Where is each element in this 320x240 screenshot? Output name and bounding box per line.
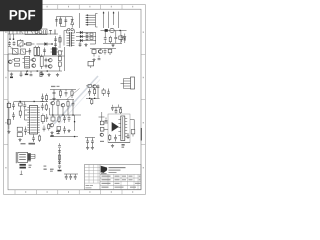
resistor R10: [15, 64, 20, 67]
diode D1: [37, 42, 53, 45]
capacitor C29: [24, 127, 27, 136]
wire sec bus2: [76, 36, 96, 38]
text note2: [50, 169, 54, 172]
label CN1 text: [20, 164, 32, 169]
resistor R1: [24, 43, 35, 46]
diode D7: [58, 161, 60, 164]
zener D6: [124, 34, 126, 44]
ground G16: [40, 71, 43, 75]
wire vsep: [79, 13, 81, 28]
resistor R32: [120, 107, 122, 114]
wire triple bus: [64, 173, 78, 175]
capacitor C3: [55, 17, 58, 27]
capacitor C12: [43, 48, 46, 56]
wire amp top: [50, 99, 75, 101]
text amp2 label: [100, 141, 104, 142]
resistor R23: [19, 109, 21, 118]
resistor R36: [131, 130, 135, 137]
diode D2: [71, 17, 74, 28]
transformer T1: [67, 28, 75, 46]
transistor Q9: [61, 103, 65, 107]
resistor R6: [109, 36, 111, 44]
capacitor C7: [86, 36, 89, 41]
capacitor C46: [58, 143, 61, 147]
capacitor C11: [29, 48, 32, 55]
capacitor C30: [32, 135, 35, 143]
capacitor C15: [30, 71, 33, 76]
resistor R20: [45, 94, 47, 103]
capacitor C13: [45, 58, 48, 69]
resistor R4: [90, 33, 93, 35]
capacitor C10: [114, 31, 117, 44]
wire amp2 vtop: [112, 105, 122, 108]
capacitor C43: [68, 115, 71, 122]
node dots: [27, 70, 48, 71]
ground G13: [92, 58, 95, 61]
capacitor C34: [91, 138, 94, 147]
resistor R26: [17, 127, 22, 131]
resistor R3: [59, 35, 61, 46]
wire sec bus3: [76, 40, 96, 42]
fuse F1: [10, 30, 18, 35]
wire ctl bus: [8, 70, 62, 72]
varistor RV1: [49, 30, 55, 35]
resistor R37: [58, 155, 60, 159]
transistor Q10: [50, 123, 54, 127]
label pwr text: [52, 47, 56, 49]
wire drop 2: [13, 34, 14, 40]
capacitor C26: [12, 112, 15, 120]
IC U4: [27, 106, 39, 135]
capacitor C23: [41, 94, 44, 103]
logo mark: [101, 166, 107, 174]
resistor R41: [57, 127, 61, 134]
resistor R33: [100, 121, 108, 125]
resistor R42: [91, 98, 93, 105]
capacitor C38: [127, 133, 130, 139]
wire reg bus: [90, 48, 116, 50]
relay K1: [11, 48, 19, 54]
diode D3: [80, 31, 82, 34]
resistor R43: [122, 144, 125, 148]
transistor Q4: [49, 58, 53, 62]
resistor R30: [67, 100, 69, 116]
wire sec join: [90, 33, 96, 45]
capacitor C8: [79, 42, 82, 47]
ground G15: [25, 71, 28, 75]
wire ctl top: [8, 54, 20, 71]
capacitor C37: [114, 135, 117, 142]
connector J1 pins: [86, 14, 98, 28]
ground G4: [47, 73, 50, 76]
ground G6: [52, 97, 55, 100]
wire amp2 right: [130, 120, 134, 130]
resistor R5: [90, 37, 93, 39]
capacitor C1: [8, 41, 11, 46]
wire sec2 top: [14, 101, 44, 102]
connector CN2: [121, 77, 135, 89]
wire primary top: [57, 17, 73, 27]
text net label: [21, 143, 36, 145]
resistor R31: [51, 115, 55, 123]
wire amp2 frame: [108, 114, 130, 143]
wire clus v: [41, 101, 49, 103]
diode D5: [80, 39, 82, 42]
transistor Q11: [100, 133, 103, 136]
node N1: [51, 43, 52, 44]
resistor R2: [59, 17, 61, 27]
wire u4 left: [25, 110, 28, 120]
ground G9: [86, 146, 89, 149]
capacitor C22: [107, 89, 110, 98]
ground G1: [84, 43, 87, 46]
resistor R16: [71, 90, 73, 99]
wire out gnd bus: [103, 43, 122, 45]
resistor R15: [59, 90, 61, 99]
wire rail V2: [108, 12, 110, 29]
resistor R11: [40, 55, 43, 70]
wire chain v: [59, 148, 61, 165]
resistor R13: [40, 71, 42, 77]
resistor R24: [45, 103, 47, 111]
capacitor C14: [20, 71, 23, 77]
wire q8 chain: [50, 105, 64, 115]
wire capbank top: [85, 137, 95, 139]
wire mid h: [34, 47, 65, 71]
capacitor C33: [86, 138, 89, 147]
ground G2: [111, 44, 114, 47]
resistor R45: [48, 123, 50, 131]
resistor R35: [109, 134, 111, 141]
wire amp vright: [74, 115, 75, 131]
capacitor C4: [64, 17, 67, 26]
capacitor C31: [72, 100, 75, 116]
capacitor C18: [53, 90, 56, 98]
resistor R28: [38, 135, 40, 143]
ground G12: [58, 166, 62, 171]
ground G11: [111, 144, 114, 147]
capacitor C40: [65, 174, 68, 180]
capacitor C28: [45, 114, 48, 122]
capacitor C45: [111, 105, 114, 111]
wire rail V4: [118, 12, 120, 29]
wire mid bus: [50, 89, 76, 91]
capacitor C32: [63, 115, 66, 123]
capacitor C2: [13, 41, 16, 46]
bridge rectifier BR1: [18, 39, 24, 48]
capacitor C44: [63, 126, 66, 134]
IC U1: [51, 47, 64, 55]
resistor R17: [86, 85, 91, 88]
ground G7: [18, 138, 21, 141]
resistor R7: [119, 31, 123, 44]
IC U6: [118, 116, 127, 141]
ground G3: [10, 73, 13, 79]
resistor R38: [121, 35, 123, 42]
transistor Q5: [49, 65, 53, 69]
title block grid: [85, 165, 142, 190]
capacitor C5: [54, 36, 57, 47]
text note1: [44, 166, 47, 170]
ground G17: [7, 130, 10, 133]
wire amp bottom: [50, 136, 78, 137]
wire amp rail1: [50, 114, 82, 115]
transistor Q8: [51, 101, 55, 105]
ground G10: [91, 146, 94, 149]
wire pri link: [64, 31, 67, 46]
capacitor C19: [65, 90, 68, 97]
wire cn1 drop: [20, 171, 23, 175]
resistor R21: [7, 102, 10, 130]
text net2: [51, 86, 60, 87]
transistor Q3: [32, 64, 36, 68]
ground G8: [50, 131, 53, 137]
diode D4: [80, 35, 82, 38]
op-amp U5: [112, 122, 119, 131]
resistor R39: [108, 49, 112, 56]
inductor L2: [101, 28, 127, 32]
wire rail V1: [103, 12, 104, 29]
PDF badge: [0, 0, 43, 31]
resistor R9: [12, 59, 19, 62]
capacitor C42: [74, 174, 77, 180]
capacitor C35: [115, 108, 118, 114]
transistor Q1: [9, 60, 13, 64]
wire diagonal: [67, 89, 80, 100]
ground G14: [67, 129, 70, 132]
resistor R29: [57, 100, 59, 116]
fold mark: [141, 128, 142, 141]
capacitor C41: [69, 174, 72, 180]
switch SW1: [20, 31, 23, 34]
resistor R46: [7, 120, 10, 125]
wire amp2 bottom: [108, 142, 130, 144]
IC U2: [23, 57, 32, 69]
capacitor C25: [23, 102, 26, 110]
resistor R27: [17, 133, 22, 137]
resistor R40: [58, 115, 60, 123]
resistor R8: [21, 49, 29, 54]
capacitor C47: [43, 126, 46, 132]
capacitor C27: [41, 103, 44, 111]
transistor Q6: [99, 49, 103, 54]
wire drop 1: [9, 34, 10, 40]
resistor R44: [56, 131, 60, 135]
resistor R25: [41, 114, 44, 125]
wire rail V3: [113, 12, 114, 26]
transformer T2: [34, 46, 40, 56]
capacitor C20: [88, 89, 91, 97]
transistor Q2: [32, 58, 36, 62]
title text lines: [86, 167, 141, 188]
capacitor C6: [86, 32, 89, 37]
capacitor C21: [97, 85, 100, 99]
capacitor C17: [98, 56, 101, 60]
connector CN1: [16, 152, 35, 163]
filter block L1: [25, 29, 47, 35]
capacitor C16: [104, 49, 107, 55]
resistor R12: [58, 51, 61, 71]
resistor R14: [92, 49, 96, 57]
capacitor C9: [104, 31, 107, 44]
capacitor C39: [58, 151, 61, 153]
wire AC input bus: [8, 33, 58, 35]
capacitor C24: [12, 102, 15, 111]
resistor R18: [94, 88, 96, 96]
wire amp2 lleads: [99, 112, 105, 121]
resistor R22: [19, 102, 23, 110]
wire sec bus1: [76, 32, 96, 34]
resistor R34: [100, 128, 108, 132]
transistor Q7: [93, 85, 96, 88]
IC U3: [88, 62, 94, 69]
ground G5: [56, 73, 59, 76]
resistor R19: [102, 88, 105, 96]
wire clus h: [86, 98, 100, 99]
capacitor C36: [105, 118, 108, 122]
